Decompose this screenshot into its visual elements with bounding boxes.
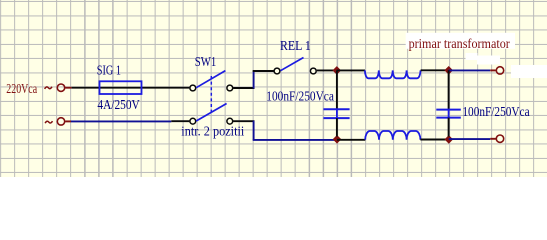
wire T1 to fuse to SW1 xyxy=(72,87,190,89)
capacitor C1 inner pin xyxy=(336,109,338,118)
svg-text:100nF/250Vca: 100nF/250Vca xyxy=(266,89,334,104)
switch SW1 contact right-top xyxy=(227,85,233,91)
terminal E (top right) xyxy=(496,67,503,74)
wire T2 run (blue segment) xyxy=(71,120,171,122)
svg-text:220Vca: 220Vca xyxy=(6,82,37,97)
junction node C xyxy=(444,66,453,75)
wire stub from T2 xyxy=(65,120,71,122)
capacitor C2 top plate xyxy=(436,109,461,111)
wire inductor L2 to node D xyxy=(420,139,448,141)
terminal T2 xyxy=(57,118,64,125)
switch SW1 contact right-bottom xyxy=(227,118,233,124)
fuse SIG 1 xyxy=(100,81,142,94)
svg-text:SW1: SW1 xyxy=(195,55,217,70)
svg-text:primar transformator: primar transformator xyxy=(409,37,510,52)
bottom rail wire to node B xyxy=(253,139,337,141)
relay REL1 blade xyxy=(281,58,304,71)
capacitor C1 top plate xyxy=(323,108,349,110)
switch SW1 contact left-top xyxy=(190,85,196,91)
wire node B to inductor L2 xyxy=(337,139,365,141)
wire node D to bottom-right terminal xyxy=(449,138,490,140)
inductor L2 (bottom) xyxy=(365,131,420,140)
inductor L1 (top) xyxy=(365,70,421,78)
AC tilde bottom-left xyxy=(45,121,52,123)
capacitor C1 stem lower (to node B) xyxy=(336,118,338,136)
relay contact REL1 right xyxy=(310,68,316,74)
junction node B xyxy=(333,135,342,144)
wire T2 run (black segment) to SW1 left-bottom xyxy=(171,120,189,122)
switch SW1 mechanical link (dashed) xyxy=(210,76,212,113)
wire SW1 right-top to corner xyxy=(233,87,254,89)
white patch upper-left of top-right terminal xyxy=(466,53,478,60)
wire stub to terminal E xyxy=(490,69,496,71)
white box behind primar transformator label xyxy=(406,33,515,49)
AC tilde top-left xyxy=(45,87,52,89)
relay contact REL1 left xyxy=(274,68,280,74)
capacitor C2 bottom plate xyxy=(436,117,461,119)
switch SW1 blade top xyxy=(196,71,225,88)
svg-text:SIG 1: SIG 1 xyxy=(97,64,121,79)
white patch left of top-right terminal xyxy=(477,56,500,65)
wire corner vertical down to bottom rail xyxy=(253,121,255,140)
wire SW1 right-bottom to corner xyxy=(233,120,254,122)
wire node A to inductor L1 xyxy=(337,69,365,71)
switch SW1 contact left-bottom xyxy=(190,118,196,124)
terminal F (bottom right) xyxy=(496,135,503,142)
capacitor C2 stem lower (to node D) xyxy=(448,118,450,137)
wire inductor L1 to node C xyxy=(421,69,449,71)
svg-text:4A/250V: 4A/250V xyxy=(97,98,139,113)
svg-text:intr. 2 pozitii: intr. 2 pozitii xyxy=(181,125,244,140)
wire REL1 to node A xyxy=(317,69,337,71)
capacitor C1 stem upper (node A down) xyxy=(336,70,338,109)
capacitor C1 bottom plate xyxy=(323,117,349,119)
terminal T1 xyxy=(57,84,64,91)
wire corner to REL 1 xyxy=(253,70,274,72)
junction node A xyxy=(333,66,342,75)
capacitor C2 inner pin xyxy=(448,110,450,118)
wire node C to top-right terminal xyxy=(449,69,491,71)
capacitor C2 stem upper (node C down) xyxy=(448,70,450,109)
white patch right of top-right terminal xyxy=(511,65,547,78)
svg-text:100nF/250Vca: 100nF/250Vca xyxy=(462,105,530,120)
wire stub to terminal F xyxy=(490,138,496,140)
switch SW1 blade bottom xyxy=(196,104,226,122)
junction node D xyxy=(445,135,454,144)
wire corner vertical up to REL level xyxy=(253,71,255,89)
svg-text:REL 1: REL 1 xyxy=(280,39,311,54)
wire stub from T1 xyxy=(65,87,71,89)
